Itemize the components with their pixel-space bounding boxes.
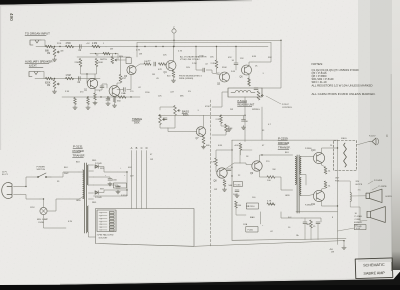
svg-text:10%: 10% xyxy=(186,67,190,69)
svg-text:117V: 117V xyxy=(2,171,7,173)
jack J2 aux xyxy=(29,72,40,77)
svg-text:3.3K: 3.3K xyxy=(65,91,70,93)
svg-text:& EXT.: & EXT. xyxy=(29,64,37,68)
svg-text:GRN: GRN xyxy=(285,195,290,197)
resistor 47K xyxy=(119,75,122,83)
svg-text:POWER: POWER xyxy=(37,166,46,168)
ground xyxy=(86,106,90,110)
resistor emitter 0.5 xyxy=(324,167,327,174)
transformer T2 core xyxy=(297,155,299,213)
capacitor xyxy=(154,62,156,66)
svg-text:47K: 47K xyxy=(122,78,126,80)
jack J1 organ input xyxy=(30,40,41,45)
svg-text:TREBLE: TREBLE xyxy=(132,117,142,121)
svg-text:1W: 1W xyxy=(139,54,142,56)
svg-text:POS: POS xyxy=(57,43,62,45)
svg-text:P-5112A: P-5112A xyxy=(238,100,248,103)
svg-text:490: 490 xyxy=(9,13,14,21)
svg-text:6.8K: 6.8K xyxy=(218,145,223,147)
svg-text:P-660: P-660 xyxy=(248,230,254,232)
resistor 1.5M xyxy=(66,77,74,80)
svg-text:SABRE AMP: SABRE AMP xyxy=(363,271,385,276)
capacitor coupling xyxy=(203,68,205,72)
resistor emitter Q6 xyxy=(248,78,251,86)
svg-text:.5M: .5M xyxy=(60,51,64,53)
svg-text:BASS: BASS xyxy=(182,109,189,113)
boxed label P-1049 xyxy=(355,225,367,230)
resistor 15 xyxy=(310,220,313,228)
svg-text:60CPS: 60CPS xyxy=(356,184,363,186)
svg-text:P-5107: P-5107 xyxy=(282,104,290,106)
resistor top drop xyxy=(239,143,242,150)
junction xyxy=(54,78,55,79)
svg-text:1M: 1M xyxy=(47,53,50,55)
svg-text:2W: 2W xyxy=(230,109,233,111)
svg-text:SCHEMATIC: SCHEMATIC xyxy=(363,263,385,268)
svg-text:ALL RESISTORS 1/2 W 10% UNLESS: ALL RESISTORS 1/2 W 10% UNLESS MARKED xyxy=(312,83,373,87)
svg-text:100K: 100K xyxy=(199,56,204,58)
svg-text:2M: 2M xyxy=(110,49,113,51)
svg-text:2.7K: 2.7K xyxy=(136,50,141,52)
boxed part P-5116 lower xyxy=(247,203,259,209)
svg-text:C: C xyxy=(173,27,175,30)
svg-text:5.6K: 5.6K xyxy=(231,71,236,73)
wire secondary taps xyxy=(301,156,314,158)
svg-text:ALL CAPACITORS IN MFD UNLESS M: ALL CAPACITORS IN MFD UNLESS MARKED. xyxy=(312,92,376,96)
resistor 470K xyxy=(66,45,74,48)
svg-text:4: 4 xyxy=(101,221,102,223)
svg-text:FIELD: FIELD xyxy=(341,138,347,140)
wire xyxy=(216,166,218,172)
ground xyxy=(235,194,239,198)
potentiometer VOLUME 1M xyxy=(53,48,56,57)
svg-text:500K: 500K xyxy=(134,122,140,125)
field coil dashed box xyxy=(334,141,357,171)
svg-text:DRIVER: DRIVER xyxy=(278,141,290,145)
svg-text:DEPTH: DEPTH xyxy=(100,59,107,61)
svg-text:Q11: Q11 xyxy=(311,204,316,206)
resistor 2.2K xyxy=(215,60,218,68)
resistor 2M rev xyxy=(103,52,110,55)
ground xyxy=(201,145,205,149)
svg-text:+40V: +40V xyxy=(234,145,239,147)
svg-text:1W: 1W xyxy=(214,189,217,191)
junction xyxy=(100,96,101,97)
capacitor output 400MFD xyxy=(303,222,307,224)
filter capacitor 1000MFD xyxy=(116,187,120,189)
svg-text:1/2A: 1/2A xyxy=(243,223,248,226)
svg-text:47K: 47K xyxy=(158,69,162,71)
potentiometer bass xyxy=(174,106,177,116)
field coil resistance xyxy=(344,143,347,167)
capacitor 10MFD xyxy=(227,169,231,171)
wire xyxy=(212,92,228,107)
matching coil L1 xyxy=(350,193,351,202)
transformer lower leads xyxy=(88,232,95,237)
shield dashed boundary xyxy=(210,100,212,246)
resistor emitter Q1 xyxy=(94,93,97,100)
wire collector Q4 xyxy=(173,47,175,62)
svg-text:7-PIN HALCORD: 7-PIN HALCORD xyxy=(97,234,114,237)
svg-text:P-5149: P-5149 xyxy=(121,195,128,197)
wire xyxy=(343,241,345,246)
wire input rail 2 xyxy=(35,78,100,80)
svg-text:P-5049: P-5049 xyxy=(95,197,103,199)
svg-text:P-2259: P-2259 xyxy=(278,136,288,140)
svg-text:D: D xyxy=(146,146,148,150)
svg-text:P-5116: P-5116 xyxy=(235,184,241,186)
svg-text:P-1187B: P-1187B xyxy=(379,186,388,188)
svg-text:2.2K: 2.2K xyxy=(216,119,221,121)
small box meter xyxy=(126,58,131,64)
ground xyxy=(227,128,231,132)
output transistor Q11 xyxy=(313,190,324,201)
transformer T1 secondary lower xyxy=(87,206,88,232)
svg-text:BLU: BLU xyxy=(285,152,289,154)
resistor 2.2M xyxy=(92,45,100,48)
svg-text:5.6K: 5.6K xyxy=(228,128,233,130)
transistor Q4 xyxy=(166,61,176,71)
ground xyxy=(108,182,112,186)
svg-text:6.3V: 6.3V xyxy=(68,221,73,223)
svg-text:P-1257: P-1257 xyxy=(369,136,376,138)
wire top feedback rail xyxy=(60,39,281,41)
svg-text:P-5860: P-5860 xyxy=(305,205,312,207)
wire secondary taps xyxy=(88,164,93,166)
wire xyxy=(79,171,83,173)
svg-text:100K: 100K xyxy=(98,62,104,64)
svg-text:P-5049: P-5049 xyxy=(95,163,103,165)
svg-text:BLK: BLK xyxy=(76,162,80,164)
svg-text:3: 3 xyxy=(101,218,102,220)
svg-text:820K: 820K xyxy=(45,82,51,84)
potentiometer VOLUME 2 xyxy=(53,80,56,89)
svg-text:390K: 390K xyxy=(222,67,227,69)
svg-text:4.7K: 4.7K xyxy=(267,201,272,203)
transistor Q5 xyxy=(220,72,230,82)
resistor 100 bias lower xyxy=(235,201,238,208)
wire collector Q2 xyxy=(117,83,121,87)
wire input rail 1 xyxy=(36,46,106,48)
svg-text:HORN: HORN xyxy=(386,196,393,198)
svg-text:6: 6 xyxy=(101,227,102,229)
wire to primary xyxy=(51,172,79,177)
chassis connector box xyxy=(96,209,195,247)
wire xyxy=(40,199,44,207)
ground xyxy=(342,246,346,250)
resistor 4.7K xyxy=(267,203,275,206)
svg-text:WHT: WHT xyxy=(64,173,69,175)
wire emitter Q6 xyxy=(248,75,250,85)
ground xyxy=(241,126,245,130)
boxed label fuse holder xyxy=(246,227,258,233)
transistor Q2 xyxy=(109,86,120,97)
svg-text:1W: 1W xyxy=(331,251,334,253)
svg-text:SOCKET: SOCKET xyxy=(99,238,109,240)
driver transistor Q9 xyxy=(252,161,262,171)
svg-text:220K: 220K xyxy=(75,62,81,64)
wire base Q1 xyxy=(86,74,88,84)
resistor 2.2K xyxy=(220,116,223,123)
resistor emitter Q7 xyxy=(202,136,205,144)
wire xyxy=(196,47,203,71)
transistor Q8 xyxy=(217,168,227,178)
wire supply branch xyxy=(77,56,130,58)
resistor 820K xyxy=(46,77,53,80)
transformer T1 secondary upper xyxy=(87,165,88,185)
wire xyxy=(40,72,44,79)
wire loop right side xyxy=(262,40,281,88)
wire extra hookups xyxy=(90,53,118,55)
wire xyxy=(216,47,218,61)
svg-text:6: 6 xyxy=(386,134,388,138)
capacitor xyxy=(106,99,110,101)
svg-text:5%: 5% xyxy=(188,91,191,93)
capacitor .02 xyxy=(79,77,81,81)
svg-text:2W: 2W xyxy=(246,206,249,208)
svg-text:TO ORGAN INPUT: TO ORGAN INPUT xyxy=(25,32,50,36)
junction xyxy=(54,46,55,47)
ground xyxy=(222,188,226,192)
ground xyxy=(116,190,120,194)
AC line plug xyxy=(2,182,12,198)
svg-text:WIRE (GREEN): WIRE (GREEN) xyxy=(179,78,194,80)
wire rectifier outputs xyxy=(98,167,127,173)
svg-text:P-5860: P-5860 xyxy=(305,148,312,150)
svg-text:470K: 470K xyxy=(66,43,72,45)
svg-text:POWER: POWER xyxy=(73,149,85,153)
wire xyxy=(41,40,45,47)
svg-text:C: C xyxy=(141,146,143,150)
wire xyxy=(249,62,252,66)
extra junction dots xyxy=(59,46,60,47)
potentiometer reverb control xyxy=(257,91,260,100)
wire xyxy=(302,218,321,222)
svg-text:4.7K: 4.7K xyxy=(211,162,216,164)
transformer T1 core xyxy=(85,163,87,233)
svg-text:1.5K: 1.5K xyxy=(121,93,126,95)
resistor to ground xyxy=(74,98,77,105)
capacitor 5MFD xyxy=(100,86,104,88)
svg-text:NOTES:: NOTES: xyxy=(312,62,324,66)
svg-text:.5W: .5W xyxy=(272,169,276,171)
title block SCHEMATIC SABRE AMP xyxy=(355,258,393,279)
resistor 560 xyxy=(118,96,126,99)
junction xyxy=(130,96,131,97)
reverb unit box P-5112A xyxy=(228,88,262,97)
svg-text:GRN: GRN xyxy=(76,200,81,202)
pilot lamp xyxy=(40,207,47,214)
wire second rail xyxy=(106,46,268,48)
svg-text:A: A xyxy=(131,146,133,150)
svg-text:2.2M: 2.2M xyxy=(192,63,197,65)
svg-text:Q10: Q10 xyxy=(311,150,316,152)
boxed part P-5116 xyxy=(234,182,243,187)
svg-text:TRANSF.: TRANSF. xyxy=(73,153,86,157)
resistor 100K bias xyxy=(95,59,98,67)
wire collector Q1 xyxy=(94,74,96,79)
boxed part no P-660 xyxy=(114,183,127,188)
wire speaker feeds xyxy=(338,181,351,193)
svg-text:BLK: BLK xyxy=(64,167,68,169)
resistor emitter Q4 xyxy=(172,71,175,78)
wire xyxy=(260,212,262,224)
svg-text:68K: 68K xyxy=(45,50,50,52)
ground xyxy=(52,58,56,62)
svg-text:RED: RED xyxy=(92,202,97,204)
output transistor Q10 xyxy=(313,152,324,163)
capacitor 10MFD xyxy=(234,63,238,65)
transformer T2 secondary xyxy=(300,157,301,175)
svg-text:REV: REV xyxy=(119,56,124,58)
capacitor 100MFD xyxy=(235,190,239,192)
svg-text:26V: 26V xyxy=(356,181,360,183)
capacitor xyxy=(254,88,258,90)
ground xyxy=(106,102,110,106)
svg-text:1.5M: 1.5M xyxy=(66,75,71,77)
wire output rail xyxy=(322,163,326,167)
transistor Q7 xyxy=(196,127,206,137)
svg-text:P-660: P-660 xyxy=(115,186,122,188)
rectifier diode SR2 P-5049 xyxy=(95,191,98,195)
wire xyxy=(81,67,97,75)
resistor 220K bias xyxy=(79,59,82,67)
wire tone network xyxy=(160,107,175,110)
svg-text:MDL 1 AMP: MDL 1 AMP xyxy=(37,218,49,221)
transformer T1 primary winding xyxy=(83,170,84,199)
transistor Q3 xyxy=(127,65,136,74)
svg-text:P-5116: P-5116 xyxy=(248,206,255,208)
svg-text:B: B xyxy=(136,146,138,150)
ground xyxy=(93,101,97,105)
svg-text:SR3 = 41-19: SR3 = 41-19 xyxy=(312,80,327,84)
wire xyxy=(111,54,113,57)
svg-text:REVERB UNIT: REVERB UNIT xyxy=(238,104,255,107)
resistor 100 xyxy=(267,176,275,179)
resistor emitter Q2 xyxy=(113,97,116,103)
svg-text:5: 5 xyxy=(101,224,102,226)
potentiometer depth xyxy=(111,57,114,64)
svg-text:RED: RED xyxy=(92,160,97,162)
wire xyxy=(357,142,370,146)
filter capacitor 2000MFD xyxy=(108,179,112,181)
svg-text:TRANSF.: TRANSF. xyxy=(278,145,291,149)
resistor to ground xyxy=(87,98,90,105)
svg-text:2: 2 xyxy=(101,216,102,218)
wire xyxy=(136,64,145,67)
svg-text:SWITCH: SWITCH xyxy=(37,169,46,171)
junction dots on rails xyxy=(136,46,137,47)
rectifier diode SR1 P-5049 xyxy=(95,165,98,169)
transistor Q1 xyxy=(87,78,97,88)
ground xyxy=(112,104,116,108)
svg-text:P-3131: P-3131 xyxy=(73,144,83,148)
wire line neutral xyxy=(14,195,41,200)
wire collectors xyxy=(322,148,338,153)
svg-text:7: 7 xyxy=(101,230,102,232)
resistor emitter 0.5 xyxy=(324,181,327,188)
svg-text:2.2K: 2.2K xyxy=(211,63,216,65)
supply bus wires xyxy=(94,172,128,196)
wire bias row xyxy=(62,96,140,98)
capacitor tone xyxy=(163,118,167,120)
svg-text:1W: 1W xyxy=(150,159,153,161)
wire inner loop xyxy=(137,42,271,44)
wire xyxy=(226,163,240,169)
svg-text:1: 1 xyxy=(101,213,102,215)
resistor 10K xyxy=(144,63,151,66)
transistor Q6 xyxy=(242,65,252,75)
resistor 47K xyxy=(159,63,166,66)
wire emitter Q1 xyxy=(94,88,96,93)
capacitor .05 out xyxy=(124,88,126,92)
svg-text:115V: 115V xyxy=(30,207,35,209)
svg-text:470K: 470K xyxy=(205,106,210,108)
potentiometer treble xyxy=(159,115,162,125)
capacitor .02 xyxy=(80,45,82,49)
svg-text:SPRING: SPRING xyxy=(252,109,260,111)
resistor 5.6K xyxy=(225,124,228,132)
resistor 68K xyxy=(46,45,53,48)
ground xyxy=(171,79,175,83)
svg-text:N.C.: N.C. xyxy=(288,217,292,219)
wire reverb drop xyxy=(244,97,246,142)
wire xyxy=(212,132,226,135)
wire driver to transformer xyxy=(260,155,293,162)
transformer T2 primary xyxy=(295,157,296,185)
horn tweeter icon xyxy=(369,138,379,145)
wire bottom rail xyxy=(194,241,344,247)
svg-text:25V: 25V xyxy=(354,225,358,227)
svg-text:AUXILIARY SPEAKER: AUXILIARY SPEAKER xyxy=(25,60,52,64)
capacitor 10MFD xyxy=(242,120,246,122)
wire xyxy=(95,84,107,90)
resistor base Q8 xyxy=(215,158,218,166)
ground xyxy=(52,90,56,94)
wire node C drop xyxy=(173,33,175,46)
svg-text:60 CY: 60 CY xyxy=(2,174,9,176)
wire xyxy=(235,47,237,64)
svg-text:VTVM; LINE 117V A.C.: VTVM; LINE 117V A.C. xyxy=(180,58,201,61)
svg-text:400MFD: 400MFD xyxy=(354,222,362,224)
switch S1 xyxy=(38,173,51,177)
tweeter horn speaker xyxy=(366,189,382,203)
wire xyxy=(117,89,124,91)
wire output bus xyxy=(337,140,339,245)
wire mid rail xyxy=(160,114,244,116)
wire xyxy=(281,212,302,218)
svg-text:4.7K: 4.7K xyxy=(178,51,183,53)
svg-text:P-12AB: P-12AB xyxy=(355,215,363,218)
svg-text:P-1049B: P-1049B xyxy=(374,180,383,182)
wire line hot xyxy=(14,177,38,187)
capacitor .1 xyxy=(316,222,320,224)
woofer speaker P-12AB xyxy=(367,207,385,223)
svg-text:6.8K: 6.8K xyxy=(252,56,257,58)
svg-text:1M: 1M xyxy=(47,85,50,87)
node C xyxy=(172,29,176,33)
svg-text:1M: 1M xyxy=(152,74,155,76)
wire xyxy=(120,57,122,75)
wire collector Q7 xyxy=(203,115,205,127)
svg-text:CONTROL: CONTROL xyxy=(282,107,293,109)
socket 7-pin block xyxy=(97,210,116,232)
svg-text:2.2M: 2.2M xyxy=(92,43,97,45)
power amp enclosure xyxy=(231,140,233,240)
svg-text:BIAS: BIAS xyxy=(250,216,255,219)
resistor emitter xyxy=(223,180,226,187)
wire xyxy=(243,115,245,119)
